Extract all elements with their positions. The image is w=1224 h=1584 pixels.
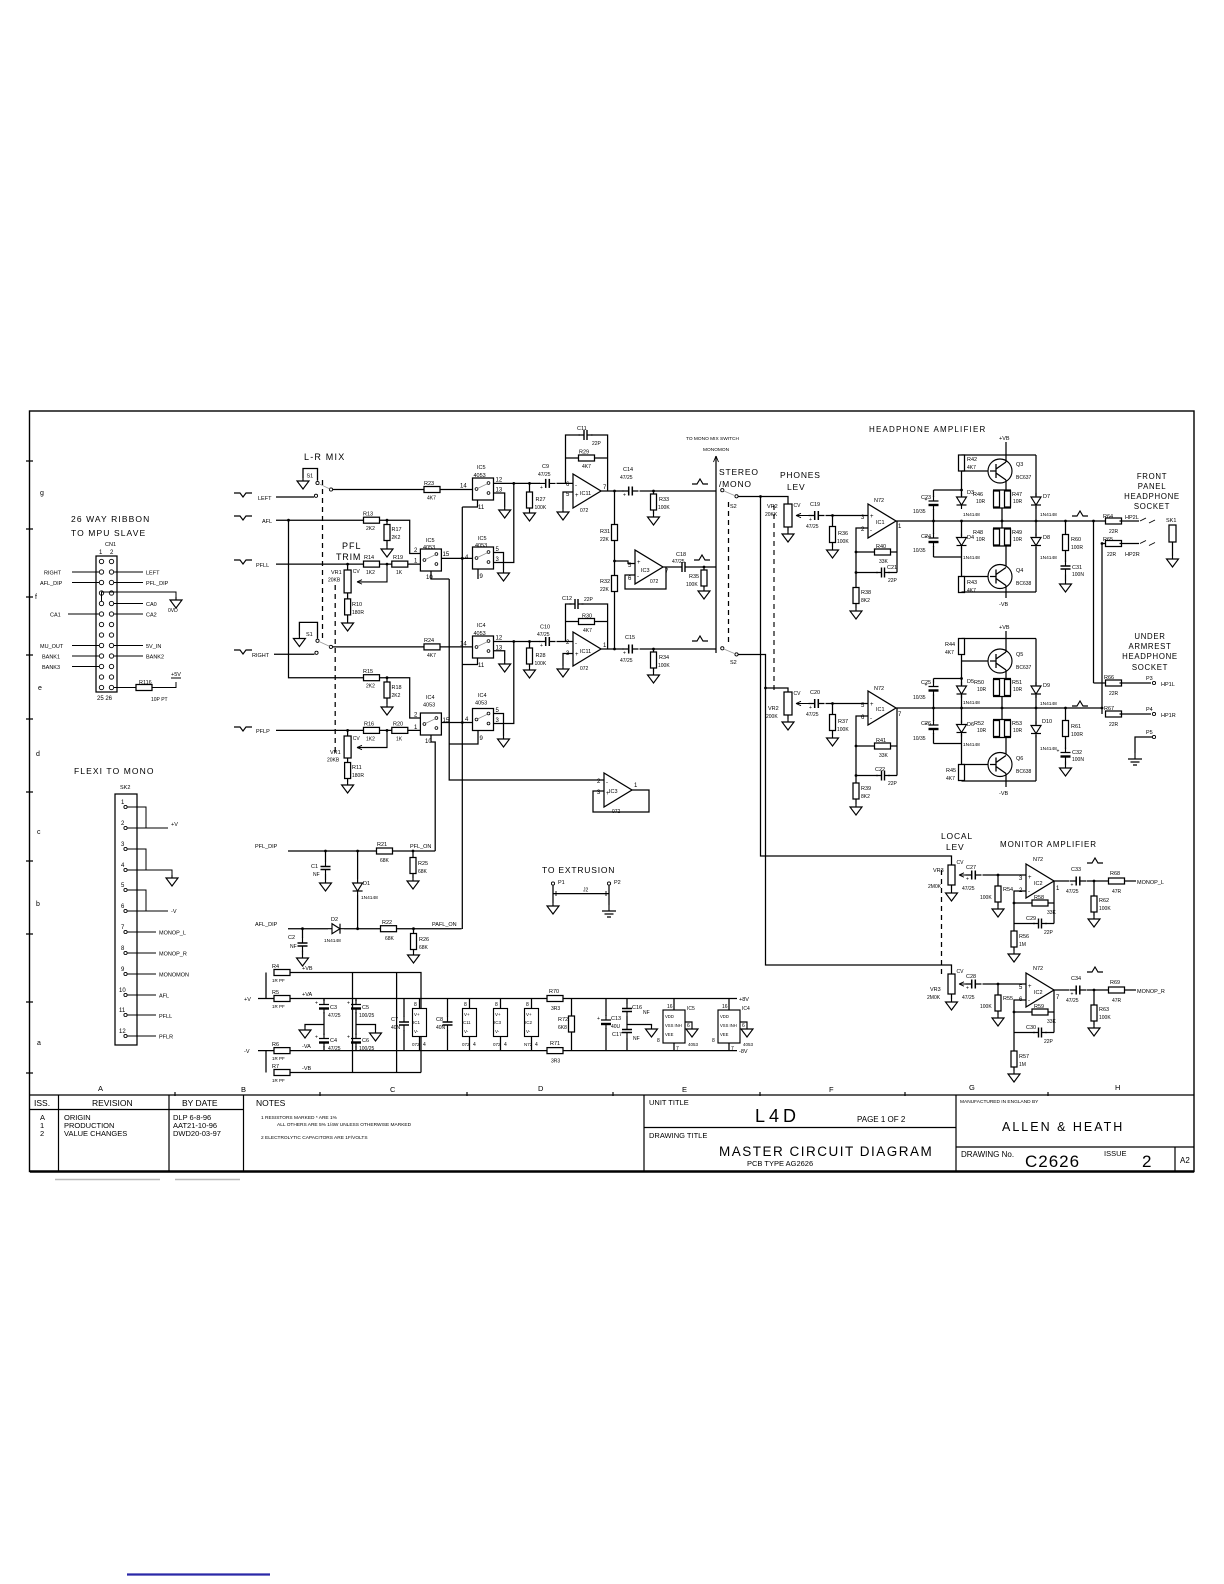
svg-text:R34: R34	[659, 655, 669, 661]
svg-text:4K7: 4K7	[427, 496, 436, 502]
svg-text:15: 15	[443, 552, 450, 558]
svg-text:-: -	[575, 641, 577, 647]
svg-text:R33: R33	[659, 497, 669, 503]
svg-text:100K: 100K	[1099, 906, 1111, 912]
ground	[646, 1026, 658, 1037]
IC2 power box	[531, 999, 533, 1051]
resistor R60	[1065, 521, 1067, 562]
resistor R34	[653, 649, 655, 672]
svg-text:VR2: VR2	[767, 504, 778, 510]
svg-text:8: 8	[657, 1038, 660, 1044]
svg-text:47/25: 47/25	[672, 559, 685, 565]
svg-text:100K: 100K	[686, 582, 698, 588]
svg-text:C1: C1	[311, 864, 318, 870]
resistor R21	[377, 848, 393, 854]
svg-text:R19: R19	[393, 555, 403, 561]
svg-text:22R: 22R	[1107, 552, 1117, 558]
svg-text:072: 072	[580, 666, 589, 672]
capacitor C17	[622, 1024, 632, 1038]
svg-text:VR1: VR1	[330, 750, 341, 756]
distribution verticals	[353, 973, 397, 1073]
fuse resistor R7	[265, 1051, 267, 1073]
svg-text:C25: C25	[921, 680, 931, 686]
feedback resistor R29	[566, 457, 608, 459]
svg-text:R28: R28	[536, 653, 546, 659]
svg-text:PFL_DIP: PFL_DIP	[146, 581, 169, 587]
svg-text:C34: C34	[1071, 976, 1081, 982]
svg-text:MANUFACTURED IN ENGLAND BY: MANUFACTURED IN ENGLAND BY	[960, 1099, 1039, 1105]
svg-text:11: 11	[478, 663, 485, 669]
svg-text:MONOP_L: MONOP_L	[1137, 880, 1164, 886]
svg-text:2K2: 2K2	[366, 526, 375, 532]
svg-text:R42: R42	[967, 457, 977, 463]
op-amp IC11a	[573, 474, 601, 508]
svg-text:V+: V+	[414, 1012, 420, 1017]
ground	[686, 1026, 698, 1037]
svg-text:IC5: IC5	[477, 465, 486, 471]
svg-text:AFL_DIP: AFL_DIP	[255, 922, 278, 928]
svg-text:4K7: 4K7	[427, 653, 436, 659]
svg-text:AFL: AFL	[262, 519, 272, 525]
capacitor C13	[605, 999, 607, 1051]
svg-text:6K8: 6K8	[558, 1025, 567, 1031]
svg-text:12: 12	[496, 636, 503, 642]
svg-text:D6: D6	[967, 722, 974, 728]
op-amp IC1b	[868, 691, 896, 725]
resistor R63	[1093, 990, 1095, 1025]
svg-text:VSS INH: VSS INH	[665, 1023, 682, 1028]
svg-text:9: 9	[121, 967, 125, 973]
svg-text:R25: R25	[418, 861, 428, 867]
output wire C33	[1054, 880, 1109, 882]
output rail lower amp	[896, 707, 1102, 709]
resistor R57	[1011, 1051, 1017, 1067]
feedback R59 C30	[1014, 990, 1054, 1051]
svg-text:68K: 68K	[418, 869, 428, 875]
svg-text:+8V: +8V	[739, 997, 749, 1003]
drop wires to under armrest	[1094, 521, 1103, 714]
svg-text:4K7: 4K7	[946, 776, 955, 782]
svg-text:-V: -V	[244, 1049, 250, 1055]
svg-text:1K: 1K	[396, 570, 403, 576]
svg-text:S1: S1	[307, 474, 314, 480]
feedback loop C11	[566, 435, 608, 491]
svg-text:C7: C7	[391, 1017, 398, 1023]
ground	[370, 1030, 382, 1041]
ground	[1088, 1025, 1100, 1036]
diode D4	[961, 521, 963, 557]
resistor R62	[1093, 881, 1095, 916]
svg-text:BANK2: BANK2	[146, 655, 164, 661]
pot VR1a	[347, 564, 349, 570]
svg-text:LEV: LEV	[787, 482, 805, 492]
svg-text:9: 9	[480, 574, 484, 580]
svg-text:IC5: IC5	[478, 536, 487, 542]
transistor Q3	[988, 459, 1012, 483]
resistor R116	[136, 685, 152, 691]
grey scan mark below frame	[55, 1179, 240, 1181]
ground	[1008, 951, 1020, 962]
resistor R64	[1106, 518, 1122, 524]
svg-text:SK1: SK1	[1166, 518, 1176, 524]
resistor R67	[1106, 711, 1122, 717]
diode D8	[1035, 521, 1037, 592]
svg-text:1: 1	[121, 800, 125, 806]
fuse resistor R6	[274, 1048, 290, 1054]
op-amp IC1a	[868, 504, 896, 538]
resistor R54	[997, 875, 999, 906]
svg-text:SK2: SK2	[120, 785, 130, 791]
svg-text:3R3: 3R3	[551, 1059, 560, 1065]
svg-text:N72: N72	[874, 686, 884, 692]
pin3 ground	[563, 654, 573, 667]
svg-text:IC2: IC2	[1034, 881, 1043, 887]
svg-text:SOCKET: SOCKET	[1134, 502, 1170, 511]
svg-text:P4: P4	[1146, 707, 1153, 713]
svg-text:C9: C9	[542, 464, 549, 470]
svg-text:V-: V-	[526, 1029, 531, 1034]
svg-text:C32: C32	[1072, 750, 1082, 756]
svg-text:3R3: 3R3	[551, 1006, 560, 1012]
ground	[557, 666, 569, 677]
svg-text:D9: D9	[1043, 683, 1050, 689]
svg-text:FLEXI TO MONO: FLEXI TO MONO	[74, 766, 155, 776]
svg-text:-: -	[1028, 889, 1030, 895]
svg-text:TO MPU SLAVE: TO MPU SLAVE	[71, 528, 146, 538]
capacitor C26	[934, 708, 962, 744]
svg-text:10R: 10R	[976, 537, 986, 543]
svg-text:1: 1	[603, 643, 607, 649]
svg-text:D7: D7	[1043, 494, 1050, 500]
svg-text:PFLP: PFLP	[256, 729, 270, 735]
svg-text:BC638: BC638	[1016, 769, 1032, 775]
input LEFT	[234, 493, 252, 497]
ground	[498, 570, 510, 581]
svg-text:NF: NF	[643, 1010, 650, 1016]
svg-text:C22: C22	[875, 767, 885, 773]
svg-text:R30: R30	[582, 614, 592, 620]
svg-text:PFLR: PFLR	[159, 1035, 173, 1041]
svg-text:100K: 100K	[535, 661, 547, 667]
resistor R65	[1102, 543, 1108, 545]
svg-text:100K: 100K	[658, 663, 670, 669]
ground	[342, 782, 354, 793]
resistor R13	[364, 517, 380, 523]
ground	[1060, 765, 1072, 776]
svg-text:IC3: IC3	[609, 789, 618, 795]
ground	[827, 547, 839, 558]
svg-text:6: 6	[687, 1023, 690, 1029]
svg-text:IC5: IC5	[687, 1006, 695, 1012]
ground	[342, 620, 354, 631]
svg-text:+5V: +5V	[171, 672, 181, 678]
svg-text:26 WAY RIBBON: 26 WAY RIBBON	[71, 514, 150, 524]
switch S1b	[299, 622, 317, 638]
svg-text:R27: R27	[536, 497, 546, 503]
revision table header	[34, 1098, 286, 1108]
svg-text:R71: R71	[550, 1041, 560, 1047]
pin13 to ground	[494, 493, 505, 507]
svg-text:47/25: 47/25	[538, 472, 551, 478]
svg-text:HP1L: HP1L	[1161, 682, 1175, 688]
svg-text:L4D: L4D	[755, 1106, 800, 1126]
dashed gang line S1	[322, 480, 324, 638]
svg-text:CV: CV	[957, 969, 965, 975]
svg-text:8: 8	[121, 946, 125, 952]
ground	[547, 903, 559, 914]
svg-text:HEADPHONE AMPLIFIER: HEADPHONE AMPLIFIER	[869, 425, 987, 434]
ground	[992, 906, 1004, 917]
long bus wire	[449, 579, 604, 780]
resistor R27	[529, 483, 531, 510]
svg-text:R17: R17	[392, 527, 402, 533]
pot VR3b	[944, 965, 952, 974]
pin10 drop to PFL_ON	[431, 735, 435, 851]
svg-text:PFL: PFL	[342, 541, 362, 551]
gnd 0/D	[170, 597, 182, 608]
svg-text:MONITOR AMPLIFIER: MONITOR AMPLIFIER	[1000, 840, 1097, 849]
svg-text:7: 7	[121, 925, 125, 931]
svg-text:Q4: Q4	[1016, 568, 1023, 574]
svg-text:22R: 22R	[1109, 691, 1119, 697]
svg-text:2K2: 2K2	[392, 693, 401, 699]
svg-text:RIGHT: RIGHT	[44, 571, 62, 577]
resistor R11	[347, 758, 349, 782]
pot VR2b	[764, 687, 767, 690]
svg-text:VDD: VDD	[720, 1014, 729, 1019]
svg-text:R26: R26	[419, 937, 429, 943]
svg-text:MONOMON: MONOMON	[159, 973, 189, 979]
svg-text:CA0: CA0	[146, 602, 157, 608]
svg-text:33K: 33K	[1047, 1019, 1057, 1025]
svg-text:VALUE CHANGES: VALUE CHANGES	[64, 1129, 127, 1138]
svg-text:1M: 1M	[1019, 1062, 1026, 1068]
svg-text:CA1: CA1	[50, 613, 61, 619]
svg-text:1N4148: 1N4148	[1040, 512, 1057, 518]
svg-text:SOCKET: SOCKET	[1132, 663, 1168, 672]
svg-text:MONOMON: MONOMON	[703, 447, 730, 453]
wire AFL	[276, 520, 420, 553]
svg-text:3: 3	[121, 842, 125, 848]
svg-text:C19: C19	[810, 502, 820, 508]
svg-text:4K7: 4K7	[945, 650, 954, 656]
svg-text:5: 5	[1019, 985, 1023, 991]
feedback wire	[625, 567, 666, 589]
svg-text:C14: C14	[623, 467, 633, 473]
svg-text:22P: 22P	[592, 441, 602, 447]
svg-text:R47: R47	[1012, 492, 1022, 498]
svg-text:D8: D8	[1043, 535, 1050, 541]
svg-text:12: 12	[496, 478, 503, 484]
svg-text:IC2: IC2	[1034, 990, 1043, 996]
svg-text:IC3: IC3	[641, 568, 650, 574]
svg-text:C13: C13	[611, 1016, 621, 1022]
svg-text:+: +	[637, 560, 641, 566]
ground	[782, 719, 794, 730]
connector P5	[1152, 735, 1155, 738]
IC1 power box	[419, 999, 421, 1051]
switch S2a	[721, 489, 724, 492]
diode D10	[1035, 708, 1037, 781]
resistor R25	[412, 851, 414, 878]
svg-text:-VA: -VA	[302, 1044, 311, 1050]
ground	[1060, 581, 1072, 592]
svg-text:C29: C29	[1026, 916, 1036, 922]
svg-text:072: 072	[650, 579, 659, 585]
svg-text:7: 7	[898, 712, 902, 718]
svg-text:4: 4	[473, 1042, 476, 1048]
svg-text:C30: C30	[1026, 1025, 1036, 1031]
resistor R55	[997, 984, 999, 1015]
output wire C34	[1054, 989, 1109, 991]
svg-text:R24: R24	[424, 638, 434, 644]
resistor R42	[959, 455, 965, 471]
svg-text:+VB: +VB	[999, 436, 1010, 442]
svg-text:10R: 10R	[977, 728, 987, 734]
capacitor C32	[1057, 748, 1071, 762]
svg-text:2M0K: 2M0K	[927, 995, 941, 1001]
resistor R16	[364, 727, 380, 733]
svg-text:10P PT: 10P PT	[151, 697, 168, 703]
svg-text:a: a	[37, 1040, 41, 1047]
svg-text:ARMREST: ARMREST	[1128, 642, 1171, 651]
svg-text:C31: C31	[1072, 565, 1082, 571]
diode D1	[357, 851, 359, 929]
svg-text:16: 16	[667, 1004, 673, 1010]
svg-text:8: 8	[712, 1038, 715, 1044]
input PFLP	[234, 727, 252, 731]
svg-text:D5: D5	[967, 679, 974, 685]
svg-text:47/25: 47/25	[328, 1046, 341, 1052]
svg-text:1R PF: 1R PF	[272, 1056, 285, 1061]
svg-text:N72: N72	[1033, 966, 1043, 972]
svg-text:072: 072	[493, 1042, 501, 1047]
svg-text:PHONES: PHONES	[780, 470, 821, 480]
svg-text:10R: 10R	[976, 499, 986, 505]
bottom column ticks	[175, 1092, 1048, 1096]
svg-text:1: 1	[898, 524, 902, 530]
pot VR1b	[347, 730, 349, 736]
svg-text:C15: C15	[625, 635, 635, 641]
svg-text:CV: CV	[957, 860, 965, 866]
wiper with C28	[959, 982, 967, 986]
svg-text:MONOP_L: MONOP_L	[159, 931, 186, 937]
svg-text:IC3: IC3	[494, 1020, 502, 1025]
svg-text:-: -	[870, 528, 872, 534]
svg-text:R31: R31	[600, 529, 610, 535]
wiper wire with C19	[796, 513, 810, 517]
svg-text:200K: 200K	[766, 714, 778, 720]
ground	[946, 890, 958, 901]
svg-text:4053: 4053	[743, 1042, 754, 1047]
svg-text:1N4148: 1N4148	[963, 700, 980, 706]
column letters	[98, 1083, 1120, 1094]
svg-text:R116: R116	[139, 680, 152, 686]
svg-text:6: 6	[742, 1023, 745, 1029]
svg-text:BANK3: BANK3	[42, 665, 60, 671]
svg-text:R68: R68	[1110, 871, 1120, 877]
svg-text:072: 072	[412, 1042, 420, 1047]
left edge tick marks	[26, 461, 33, 1073]
svg-text:+V: +V	[244, 997, 251, 1003]
svg-text:Q6: Q6	[1016, 756, 1023, 762]
transistor Q4	[988, 565, 1012, 589]
resistor R31	[614, 491, 616, 561]
pin12 output wire	[494, 482, 541, 484]
svg-text:PFLL: PFLL	[256, 563, 269, 569]
svg-text:R39: R39	[861, 786, 871, 792]
svg-text:V-: V-	[495, 1029, 500, 1034]
svg-text:68K: 68K	[385, 936, 395, 942]
svg-text:S2: S2	[730, 660, 737, 666]
svg-text:22P: 22P	[1044, 930, 1054, 936]
svg-text:1 RESISTORS MARKED * ARE 1%: 1 RESISTORS MARKED * ARE 1%	[261, 1115, 338, 1121]
svg-text:C23: C23	[921, 495, 931, 501]
transistor Q6	[988, 753, 1012, 777]
svg-text:E: E	[682, 1085, 687, 1094]
svg-text:VEE: VEE	[720, 1032, 729, 1037]
svg-text:R54: R54	[1003, 887, 1013, 893]
capacitor C8	[447, 999, 449, 1051]
svg-text:R62: R62	[1099, 898, 1109, 904]
svg-text:R40: R40	[876, 544, 886, 550]
IC3 power box	[500, 999, 502, 1051]
input PFLL	[234, 560, 252, 564]
IC5 4053 power box	[673, 999, 675, 1051]
dashed gang line S2	[728, 502, 730, 645]
wire to R23	[333, 489, 424, 491]
svg-text:C8: C8	[436, 1017, 443, 1023]
op-amp IC3b	[604, 773, 632, 807]
svg-text:D1: D1	[363, 881, 370, 887]
svg-text:C2: C2	[288, 935, 295, 941]
resistor R19	[392, 561, 408, 567]
svg-text:22R: 22R	[1109, 529, 1119, 535]
svg-text:+: +	[870, 702, 874, 708]
svg-text:C28: C28	[966, 974, 976, 980]
svg-text:MONOP_R: MONOP_R	[1137, 989, 1165, 995]
svg-text:100K: 100K	[837, 727, 849, 733]
svg-text:PAFL_ON: PAFL_ON	[432, 922, 457, 928]
pin12 output	[494, 641, 541, 643]
svg-text:4: 4	[423, 1042, 426, 1048]
svg-text:10/35: 10/35	[913, 695, 926, 701]
svg-text:IC4: IC4	[478, 693, 487, 699]
svg-text:BC638: BC638	[1016, 581, 1032, 587]
svg-text:4K7: 4K7	[967, 588, 976, 594]
ground	[648, 514, 660, 525]
svg-text:c: c	[37, 829, 41, 836]
dashed gang VR2	[773, 505, 775, 690]
wire to R24	[332, 646, 424, 648]
ground	[782, 531, 794, 542]
svg-text:68K: 68K	[380, 858, 390, 864]
capacitor C3	[323, 999, 325, 1036]
ground	[1008, 1071, 1020, 1082]
svg-text:22P: 22P	[888, 781, 898, 787]
resistor R66	[1094, 682, 1109, 684]
feedback C12	[566, 604, 608, 649]
input RIGHT	[234, 650, 252, 654]
svg-text:C20: C20	[810, 690, 820, 696]
svg-text:LOCAL: LOCAL	[941, 831, 973, 841]
svg-text:R41: R41	[876, 738, 886, 744]
svg-text:+: +	[575, 652, 579, 658]
svg-text:IC11: IC11	[580, 649, 591, 655]
svg-text:NF: NF	[633, 1036, 640, 1042]
svg-text:072: 072	[580, 508, 589, 514]
fuse resistor R4	[265, 973, 267, 999]
